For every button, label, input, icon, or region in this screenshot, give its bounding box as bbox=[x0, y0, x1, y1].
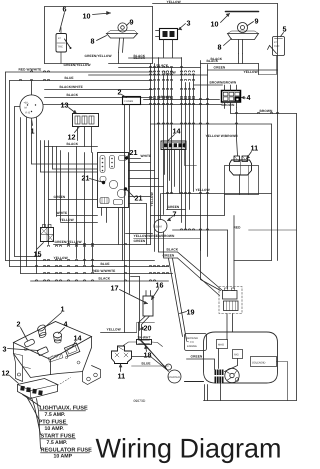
connector 13 12 bbox=[73, 114, 99, 127]
svg-text:14: 14 bbox=[74, 334, 82, 343]
wire battery drops into engine bbox=[226, 314, 228, 340]
svg-text:7: 7 bbox=[173, 210, 177, 219]
svg-text:YELLOW: YELLOW bbox=[167, 0, 181, 4]
svg-text:12: 12 bbox=[68, 133, 76, 142]
reg box bbox=[233, 350, 243, 359]
svg-text:GREEN: GREEN bbox=[191, 355, 203, 359]
lamp 9 right dish bbox=[228, 34, 259, 40]
svg-text:GREEN: GREEN bbox=[163, 254, 175, 258]
ignition switch 1 bbox=[20, 95, 43, 118]
switch 6 bbox=[56, 34, 67, 53]
svg-text:GROUND: GROUND bbox=[187, 337, 199, 340]
wire from connector3 down bbox=[163, 40, 165, 58]
wire diagonal to battery b bbox=[178, 258, 220, 296]
wire diagonal to battery a bbox=[178, 252, 223, 291]
svg-text:3K-WHT: 3K-WHT bbox=[138, 336, 151, 340]
svg-text:YELLOW: YELLOW bbox=[107, 328, 121, 332]
svg-text:BLUE: BLUE bbox=[101, 262, 110, 266]
battery top box bbox=[223, 291, 238, 300]
svg-text:4: 4 bbox=[247, 93, 251, 102]
wire 19 harness bbox=[169, 259, 183, 337]
console slot bbox=[48, 353, 63, 362]
wire switch5 drop bbox=[259, 56, 277, 75]
wire connector4 drop bbox=[237, 108, 238, 156]
svg-text:BLACK: BLACK bbox=[134, 54, 146, 58]
light bar right bbox=[226, 11, 259, 13]
svg-text:TRC: TRC bbox=[58, 46, 63, 49]
console front face bbox=[14, 343, 51, 378]
console top face bbox=[14, 322, 92, 360]
engine outline bbox=[204, 332, 278, 383]
console choke hole 2 bbox=[24, 339, 35, 348]
svg-text:WHITE: WHITE bbox=[141, 154, 152, 158]
console knob 4 bbox=[54, 332, 62, 338]
resistor leads bbox=[123, 342, 137, 346]
svg-text:R G: R G bbox=[26, 112, 31, 115]
console hole 14 bbox=[64, 343, 79, 356]
svg-text:7.5 AMP.: 7.5 AMP. bbox=[47, 440, 68, 446]
solenoid box bbox=[251, 357, 277, 367]
svg-text:15: 15 bbox=[34, 250, 42, 259]
svg-text:2: 2 bbox=[17, 320, 21, 329]
wire top yellow bbox=[153, 3, 278, 5]
wire brown right bbox=[231, 102, 297, 114]
console front notch bbox=[14, 354, 31, 369]
svg-text:1: 1 bbox=[61, 305, 65, 314]
svg-text:10: 10 bbox=[211, 20, 219, 29]
svg-text:18: 18 bbox=[144, 351, 152, 360]
fuse block 12 bbox=[18, 379, 58, 399]
svg-text:9: 9 bbox=[130, 18, 134, 27]
console left bracket bbox=[14, 354, 23, 382]
switch 5 bbox=[273, 37, 285, 56]
wire mag down bbox=[218, 349, 220, 369]
wire fuse box drops bbox=[124, 105, 126, 333]
wire relay box top bbox=[151, 123, 272, 125]
svg-text:SOLENOID: SOLENOID bbox=[252, 362, 266, 365]
solenoid wire right bbox=[277, 362, 288, 401]
wire bottom border bbox=[204, 400, 297, 402]
svg-text:BLACK: BLACK bbox=[99, 277, 111, 281]
wire row left a bbox=[32, 163, 98, 165]
wire box bottom drops bbox=[101, 208, 103, 216]
svg-text:3: 3 bbox=[187, 19, 191, 28]
svg-text:8: 8 bbox=[218, 43, 222, 52]
svg-text:GREEN: GREEN bbox=[54, 195, 66, 199]
relay inner box bbox=[225, 166, 259, 195]
wire left border verticals bbox=[5, 72, 7, 261]
svg-text:YELLOW: YELLOW bbox=[60, 218, 74, 222]
wire box right links bbox=[129, 162, 151, 164]
fuse leader lines bbox=[23, 395, 41, 407]
svg-text:7.5 AMP.: 7.5 AMP. bbox=[45, 412, 66, 418]
svg-text:GREEN/YELLOW: GREEN/YELLOW bbox=[64, 63, 91, 67]
svg-text:LT: LT bbox=[274, 41, 277, 44]
svg-text:09073D: 09073D bbox=[134, 399, 146, 403]
console keyswitch cylinder 1 bbox=[37, 324, 47, 333]
svg-text:LT: LT bbox=[58, 37, 61, 40]
svg-text:WHITE: WHITE bbox=[57, 211, 68, 215]
svg-text:YELLOW: YELLOW bbox=[150, 192, 154, 206]
svg-text:5: 5 bbox=[283, 25, 287, 34]
svg-text:GREEN/YELLOW: GREEN/YELLOW bbox=[85, 54, 112, 58]
svg-text:10: 10 bbox=[83, 12, 91, 21]
wire mid verticals bundle bbox=[150, 64, 152, 245]
wire enclosure bottom right bbox=[109, 7, 153, 64]
svg-text:BLACK: BLACK bbox=[167, 248, 179, 252]
svg-text:13: 13 bbox=[61, 101, 69, 110]
svg-text:BROWN: BROWN bbox=[159, 95, 172, 99]
svg-text:YELLOW: YELLOW bbox=[196, 188, 210, 192]
svg-text:STARTER: STARTER bbox=[168, 376, 180, 379]
ground to engine box bbox=[185, 334, 207, 351]
relay 11 bbox=[234, 156, 240, 162]
console hole 3 bbox=[37, 347, 48, 356]
svg-text:YELLOW W/BROWN: YELLOW W/BROWN bbox=[206, 134, 239, 138]
wire row left c bbox=[41, 171, 98, 173]
dashed link fuse to console bbox=[58, 378, 71, 386]
svg-text:ENGINE: ENGINE bbox=[187, 345, 197, 348]
pto switch Y component bbox=[112, 346, 132, 364]
svg-text:RED W/WHITE: RED W/WHITE bbox=[93, 269, 116, 273]
wire crossing bumps bbox=[19, 66, 278, 281]
wire engine bottom bus bbox=[185, 381, 204, 383]
svg-text:RED: RED bbox=[234, 226, 242, 230]
wire relay to down bbox=[239, 175, 241, 195]
wire ignition right bbox=[43, 104, 221, 106]
svg-text:12: 12 bbox=[2, 369, 10, 378]
svg-text:10 AMP.: 10 AMP. bbox=[45, 426, 65, 432]
console right foot bbox=[83, 366, 101, 385]
wire y-comp to starter bbox=[132, 357, 167, 370]
wire left mid verticals bbox=[44, 141, 46, 228]
wire relay drop to battery bbox=[233, 216, 235, 289]
svg-text:+B L: +B L bbox=[24, 102, 30, 105]
svg-text:BROWN/BROWN: BROWN/BROWN bbox=[210, 81, 237, 85]
svg-text:FUSES: FUSES bbox=[125, 100, 134, 103]
wire connector14 drops bbox=[164, 150, 166, 175]
svg-text:8: 8 bbox=[91, 37, 95, 46]
svg-text:19: 19 bbox=[187, 308, 195, 317]
svg-text:11: 11 bbox=[118, 372, 126, 381]
wire from ignition left bbox=[15, 107, 41, 257]
svg-text:21: 21 bbox=[130, 148, 138, 157]
wire 20 pair to starter bbox=[139, 316, 167, 369]
component 2 fuse block bbox=[123, 97, 141, 105]
svg-text:BLACK: BLACK bbox=[67, 142, 79, 146]
lamp 9 right stem bbox=[238, 40, 240, 54]
svg-text:21: 21 bbox=[135, 194, 143, 203]
svg-text:SEAT: SEAT bbox=[156, 226, 163, 229]
wire seat bottom drops bbox=[158, 232, 160, 252]
mag box bbox=[217, 340, 228, 349]
wire seat top bbox=[160, 194, 162, 220]
wire right drop from yellow bbox=[277, 4, 279, 114]
svg-text:21: 21 bbox=[82, 174, 90, 183]
svg-text:3: 3 bbox=[3, 345, 7, 354]
connector 15 bbox=[41, 228, 54, 242]
wire lamp left drop bbox=[118, 53, 120, 64]
svg-text:20: 20 bbox=[144, 324, 152, 333]
connector 4 stubs bbox=[225, 85, 237, 91]
svg-text:- TO: - TO bbox=[189, 341, 194, 344]
svg-text:GREEN: GREEN bbox=[214, 66, 226, 70]
svg-text:BROWN: BROWN bbox=[222, 103, 235, 107]
svg-text:17: 17 bbox=[111, 284, 119, 293]
svg-text:RED W/WHITE: RED W/WHITE bbox=[19, 68, 42, 72]
svg-text:YELLOW: YELLOW bbox=[244, 70, 258, 74]
wire ignition bottom pins bbox=[26, 118, 28, 267]
wire bottom left joins bbox=[131, 276, 140, 278]
svg-text:BLUE: BLUE bbox=[142, 362, 151, 366]
connector 14 bbox=[161, 141, 186, 150]
console right face bbox=[51, 337, 92, 375]
svg-text:BLUE: BLUE bbox=[65, 76, 74, 80]
svg-text:16: 16 bbox=[156, 281, 164, 290]
component 17 16 capacitor bbox=[143, 296, 153, 316]
svg-text:GREEN: GREEN bbox=[134, 239, 146, 243]
svg-text:BLACK/WHITE: BLACK/WHITE bbox=[60, 85, 83, 89]
lamp 8 left stem bbox=[119, 38, 120, 53]
wire enclosure bottom bbox=[45, 63, 89, 65]
lamp 9 right bulb bbox=[238, 23, 248, 33]
ignition module comb bbox=[215, 370, 224, 376]
lamp 8 left dish bbox=[107, 34, 138, 39]
wire left lamp enclosure bbox=[45, 7, 153, 64]
svg-text:9: 9 bbox=[255, 17, 259, 26]
svg-text:GREEN: GREEN bbox=[168, 205, 180, 209]
starter bbox=[168, 370, 181, 383]
svg-text:BLACK: BLACK bbox=[207, 59, 219, 63]
wire x277 drop bbox=[277, 114, 279, 261]
svg-text:BLACK: BLACK bbox=[67, 93, 79, 97]
battery outer dashed bbox=[219, 287, 242, 314]
battery lower box bbox=[224, 301, 239, 311]
svg-text:R/G: R/G bbox=[234, 354, 239, 357]
svg-text:10 AMP: 10 AMP bbox=[54, 454, 73, 460]
svg-text:2: 2 bbox=[118, 88, 122, 97]
svg-text:MAG: MAG bbox=[218, 344, 224, 347]
svg-text:TRC: TRC bbox=[274, 45, 279, 48]
svg-text:14: 14 bbox=[173, 127, 181, 136]
flywheel points bbox=[225, 368, 239, 382]
svg-text:Wiring Diagram: Wiring Diagram bbox=[96, 434, 282, 464]
wire red drop to battery bbox=[201, 230, 221, 291]
wires under connector 13 bbox=[77, 127, 79, 141]
wire under right lamp bbox=[238, 54, 240, 64]
connector 4 bbox=[222, 91, 241, 103]
lamp 8 left bulb bbox=[118, 23, 127, 32]
connector 3 bbox=[160, 29, 178, 40]
wire ignition top bbox=[31, 81, 33, 95]
svg-text:4: 4 bbox=[64, 320, 68, 329]
seat switch 7 bbox=[154, 220, 167, 233]
wire row left b bbox=[53, 168, 98, 170]
svg-text:YELLOW/GREEN/BROWN: YELLOW/GREEN/BROWN bbox=[134, 234, 176, 238]
central connector 21 bbox=[98, 153, 129, 208]
svg-text:M: M bbox=[25, 107, 27, 110]
wire right border bbox=[296, 114, 298, 401]
